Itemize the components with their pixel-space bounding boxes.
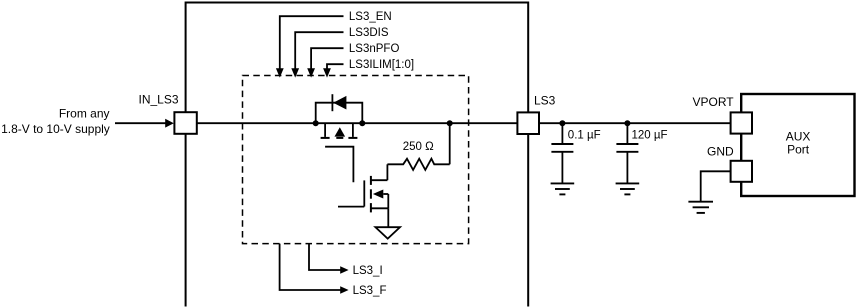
svg-text:250 Ω: 250 Ω [403,141,434,153]
pin LS3 [517,112,539,134]
label AUX Port [786,130,811,157]
wire LS3nPFO with arrowhead [307,48,343,77]
svg-text:From any: From any [59,107,110,121]
svg-text:120 µF: 120 µF [632,129,668,141]
body diode of Q1 [316,94,363,123]
svg-text:Port: Port [787,143,810,157]
svg-text:VPORT: VPORT [693,95,735,109]
IC U1 box [186,3,529,307]
pass MOSFET Q1 [321,123,358,182]
resistor 250 ohm [387,159,449,170]
svg-text:LS3DIS: LS3DIS [349,27,389,39]
wire LS3 to VPORT [539,122,731,124]
node: diode left junction [313,120,319,126]
node: diode right junction [359,120,365,126]
svg-text:LS3_I: LS3_I [353,265,383,277]
wire LS3_I with arrowhead [309,244,349,274]
AUX Port box [741,94,854,196]
wire LS3DIS with arrowhead [291,32,343,77]
pin GND [731,161,752,182]
wire LS3ILIM[1:0] with arrowhead [323,64,343,77]
node: C2 junction [624,120,630,126]
capacitor C1 0.1 uF [551,123,573,183]
sense MOSFET Q2 [338,164,388,227]
ground C1 [551,183,575,194]
svg-text:GND: GND [707,144,734,158]
pin IN_LS3 [174,112,196,134]
svg-text:LS3_F: LS3_F [353,285,387,297]
svg-text:LS3ILIM[1:0]: LS3ILIM[1:0] [349,59,414,71]
svg-text:IN_LS3: IN_LS3 [139,92,179,106]
pin VPORT [731,112,752,133]
svg-text:0.1 µF: 0.1 µF [568,129,601,141]
svg-text:1.8-V to 10-V supply: 1.8-V to 10-V supply [1,122,110,136]
ground (AUX port) [688,202,713,213]
dashed box: LS3 load switch block [243,76,469,244]
wire IN_LS3 to LS3 (main rail) [197,122,518,124]
ground (open triangle, internal) [375,227,400,238]
label: From any 1.8-V to 10-V supply [1,107,110,136]
capacitor C2 120 uF [616,123,638,183]
svg-text:AUX: AUX [786,130,811,144]
wire supply input with arrowhead [115,119,174,128]
wire resistor to output node [449,123,451,164]
node: C1 junction [559,120,565,126]
ground C2 [616,183,640,194]
wire GND pin to ground [701,171,731,201]
svg-text:LS3: LS3 [534,93,556,107]
svg-text:LS3_EN: LS3_EN [349,11,392,23]
svg-text:LS3nPFO: LS3nPFO [349,43,400,55]
wire LS3_EN with arrowhead [276,16,344,77]
node: resistor junction [447,120,453,126]
wire LS3_F with arrowhead [280,244,349,294]
